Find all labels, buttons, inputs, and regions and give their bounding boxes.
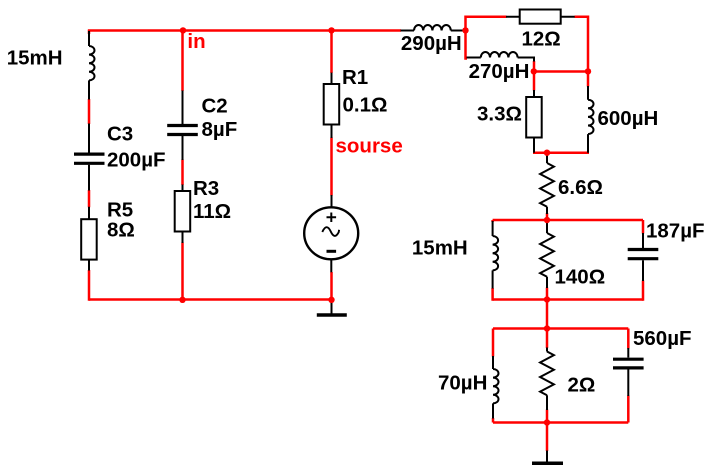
svg-text:200µF: 200µF <box>107 149 166 172</box>
wire: group2 top horizontal net <box>493 327 628 330</box>
wire: source rail red segments <box>330 31 333 301</box>
wire: group1 top horizontal net <box>493 219 643 222</box>
svg-text:70µH: 70µH <box>438 372 487 395</box>
svg-text:8Ω: 8Ω <box>107 219 135 242</box>
voltage source V1 (sine) <box>304 195 358 272</box>
wire: down to 600uH <box>587 72 590 87</box>
resistor R2 12ohm (horizontal box) <box>506 10 575 24</box>
node junction dot: in node top <box>180 27 186 33</box>
svg-text:3.3Ω: 3.3Ω <box>477 102 522 125</box>
inductor L6 70uH (group2 vertical coil) <box>493 356 499 419</box>
wire: junction L2 right up to 12ohm branch <box>466 17 507 32</box>
wire: horizontal net y=72 between 3.3ohm and 600uH tops <box>533 70 589 73</box>
resistor R1 <box>324 73 340 138</box>
wire: group1 right cap C4 verticals <box>642 220 645 301</box>
node junction dot: R1 top <box>328 27 334 33</box>
svg-text:12Ω: 12Ω <box>522 27 561 50</box>
capacitor C4 187uF <box>628 233 659 281</box>
svg-text:in: in <box>187 30 205 53</box>
inductor L2 290uH (horizontal coil) <box>401 25 464 31</box>
wire: horizontal net y=152.7 bottom of 3.3ohm/600uH <box>533 151 589 154</box>
node junction dot: 600uH top net right <box>585 68 591 74</box>
svg-text:sourse: sourse <box>336 134 403 157</box>
wire: group1 middle 140ohm bottom red <box>546 288 549 300</box>
wire: 6.6ohm bottom stub to group1 top <box>546 213 549 221</box>
node junction dot: bottom net at in rail <box>179 297 185 303</box>
wire: group2 right 560uF verticals <box>627 329 630 423</box>
svg-text:R1: R1 <box>342 66 368 89</box>
resistor R5 <box>81 207 97 271</box>
node junction dot: group1 bottom <box>544 296 550 302</box>
wire: top horizontal net from left rail to L2 input <box>88 29 401 32</box>
resistor R6 6.6ohm (zigzag) <box>540 155 554 215</box>
svg-text:C3: C3 <box>107 122 133 145</box>
svg-text:C2: C2 <box>202 94 228 117</box>
wire: group2 middle 2ohm verticals <box>546 329 549 423</box>
node junction dot: group1 top <box>544 217 550 223</box>
svg-text:15mH: 15mH <box>7 47 63 70</box>
resistor R7 140ohm (zigzag) <box>540 221 554 288</box>
svg-text:R3: R3 <box>193 177 219 200</box>
svg-text:11Ω: 11Ω <box>193 200 231 223</box>
wire: in rail red segments <box>181 31 184 301</box>
ground G2 (bottom right) <box>532 451 563 464</box>
wire: drop to ground G2 <box>546 423 549 452</box>
wire: down to 3.3ohm <box>533 72 536 91</box>
node junction dot: group2 top <box>544 325 550 331</box>
inductor L4 600uH (vertical coil) <box>588 86 594 153</box>
wire: group1 bottom horizontal net <box>493 298 643 301</box>
wire: junction L2 down to L3 270uH <box>466 31 468 59</box>
svg-text:187µF: 187µF <box>646 220 705 243</box>
node junction dot: L2 right <box>462 27 468 33</box>
node junction dot: group2 bottom <box>544 419 550 425</box>
resistor R3 <box>175 185 191 244</box>
node junction dot: bottom net at source <box>328 297 334 303</box>
wire: group2 bottom horizontal net <box>493 421 628 424</box>
ground G1 (below source) <box>317 300 347 315</box>
capacitor C3 <box>74 124 105 191</box>
svg-text:0.1Ω: 0.1Ω <box>343 94 388 117</box>
wire: L3 output stub down <box>533 61 536 72</box>
svg-text:8µF: 8µF <box>202 118 238 141</box>
svg-text:560µF: 560µF <box>633 327 692 350</box>
svg-text:600µH: 600µH <box>598 107 659 130</box>
svg-text:140Ω: 140Ω <box>555 266 606 289</box>
node junction dot: L3 bottom <box>531 68 537 74</box>
wire: vertical between group1 and group2 <box>546 300 549 329</box>
wire: left rail red segments <box>88 30 91 301</box>
wire: group2 left 70uH verticals <box>492 329 495 423</box>
capacitor C2 <box>167 91 198 161</box>
svg-text:6.6Ω: 6.6Ω <box>558 176 603 199</box>
svg-text:2Ω: 2Ω <box>568 374 596 397</box>
capacitor C5 560uF <box>613 348 644 396</box>
inductor L5 15mH (group1 vertical coil) <box>493 221 499 289</box>
svg-text:15mH: 15mH <box>412 236 468 259</box>
inductor L3 270uH (horizontal coil) <box>467 52 535 62</box>
resistor R4 3.3ohm <box>526 90 542 153</box>
wire: group1 left corner verticals <box>491 220 494 301</box>
inductor L1 15mH (top-left vertical coil) <box>89 31 95 100</box>
resistor R8 2ohm (zigzag) <box>540 348 554 411</box>
node junction dot: net above 6.6ohm <box>544 150 550 156</box>
svg-text:270µH: 270µH <box>469 60 530 83</box>
wire: 12ohm right side over and down <box>575 17 589 73</box>
wire: bottom horizontal net <box>89 298 332 301</box>
svg-text:290µH: 290µH <box>401 32 462 55</box>
